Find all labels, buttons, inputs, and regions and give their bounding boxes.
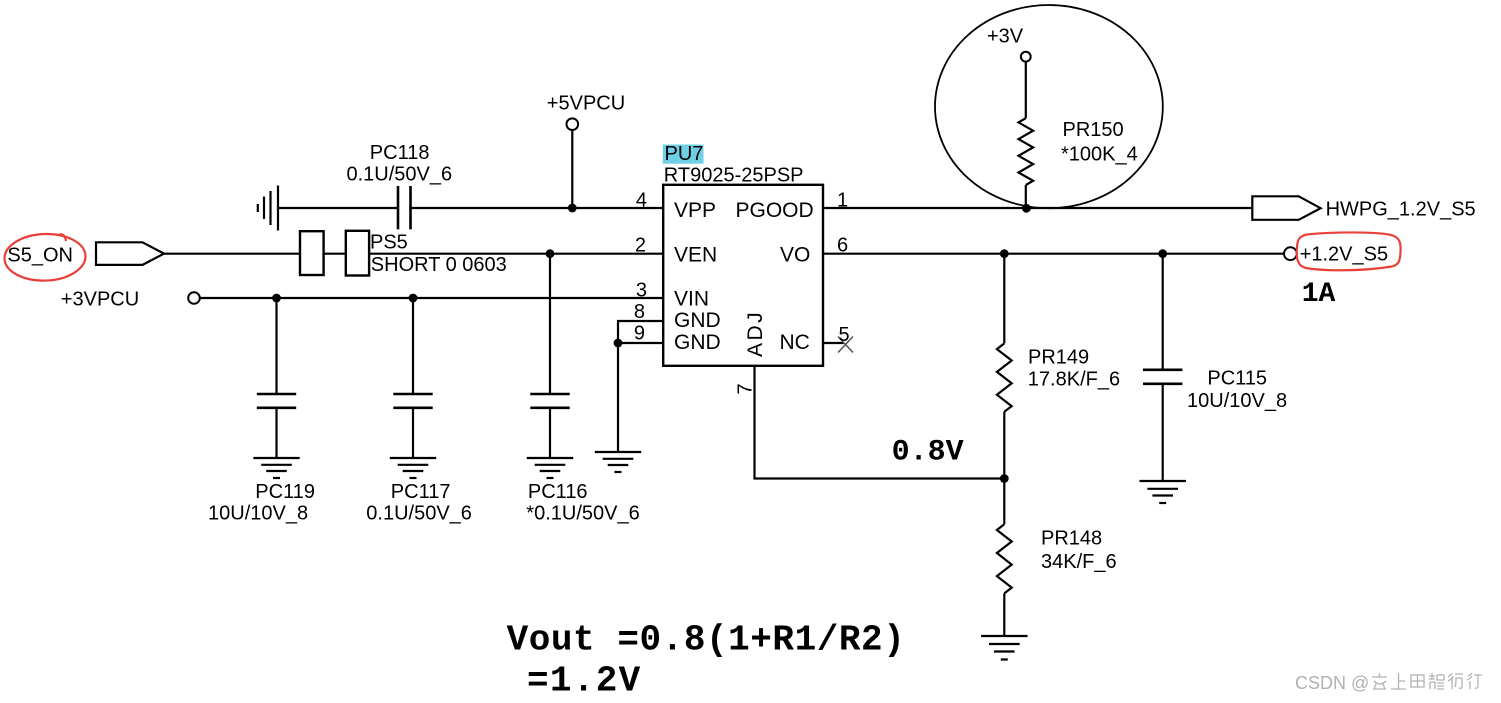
svg-text:PC117: PC117 [391,481,451,503]
svg-text:*100K_4: *100K_4 [1061,144,1138,166]
svg-text:SHORT 0 0603: SHORT 0 0603 [371,254,507,276]
svg-text:1: 1 [837,190,848,212]
svg-text:=1.2V: =1.2V [527,661,642,702]
svg-text:2: 2 [635,235,646,257]
svg-text:PR150: PR150 [1063,119,1124,141]
svg-text:PS5: PS5 [370,232,408,254]
svg-text:10U/10V_8: 10U/10V_8 [208,503,308,525]
svg-text:PR149: PR149 [1028,347,1089,369]
svg-text:7: 7 [735,383,757,394]
svg-text:1A: 1A [1302,279,1336,310]
svg-text:+5VPCU: +5VPCU [547,93,625,115]
svg-text:VIN: VIN [674,288,709,311]
svg-text:PGOOD: PGOOD [736,199,814,222]
svg-text:9: 9 [634,323,645,345]
svg-text:RT9025-25PSP: RT9025-25PSP [664,165,804,187]
svg-text:NC: NC [780,331,810,354]
svg-text:+3VPCU: +3VPCU [61,289,139,311]
svg-text:0.1U/50V_6: 0.1U/50V_6 [347,163,453,185]
svg-text:VO: VO [780,244,810,267]
svg-text:VPP: VPP [674,199,716,222]
svg-text:17.8K/F_6: 17.8K/F_6 [1028,369,1120,391]
svg-text:10U/10V_8: 10U/10V_8 [1187,390,1287,412]
svg-text:PC116: PC116 [528,481,588,503]
svg-text:6: 6 [837,235,848,257]
svg-text:GND: GND [674,309,721,332]
svg-text:4: 4 [636,190,647,212]
svg-text:PC118: PC118 [370,142,430,164]
svg-text:3: 3 [636,280,647,302]
svg-text:PC119: PC119 [255,481,315,503]
svg-text:+3V: +3V [987,26,1024,48]
svg-text:VEN: VEN [674,244,717,267]
svg-text:+1.2V_S5: +1.2V_S5 [1300,244,1388,266]
svg-text:HWPG_1.2V_S5: HWPG_1.2V_S5 [1326,199,1476,221]
svg-text:0.1U/50V_6: 0.1U/50V_6 [366,503,472,525]
svg-text:PR148: PR148 [1041,528,1102,550]
svg-text:PC115: PC115 [1207,368,1267,390]
svg-text:Vout =0.8(1+R1/R2): Vout =0.8(1+R1/R2) [507,620,906,661]
svg-text:34K/F_6: 34K/F_6 [1041,551,1117,573]
svg-text:*0.1U/50V_6: *0.1U/50V_6 [526,503,639,525]
svg-text:CSDN @: CSDN @ [1295,673,1369,693]
svg-text:PU7: PU7 [665,143,704,165]
svg-text:GND: GND [674,331,721,354]
svg-text:8: 8 [634,301,645,323]
svg-text:S5_ON: S5_ON [7,245,73,267]
svg-text:ADJ: ADJ [744,310,767,357]
svg-text:0.8V: 0.8V [892,435,964,469]
svg-text:5: 5 [839,324,850,346]
